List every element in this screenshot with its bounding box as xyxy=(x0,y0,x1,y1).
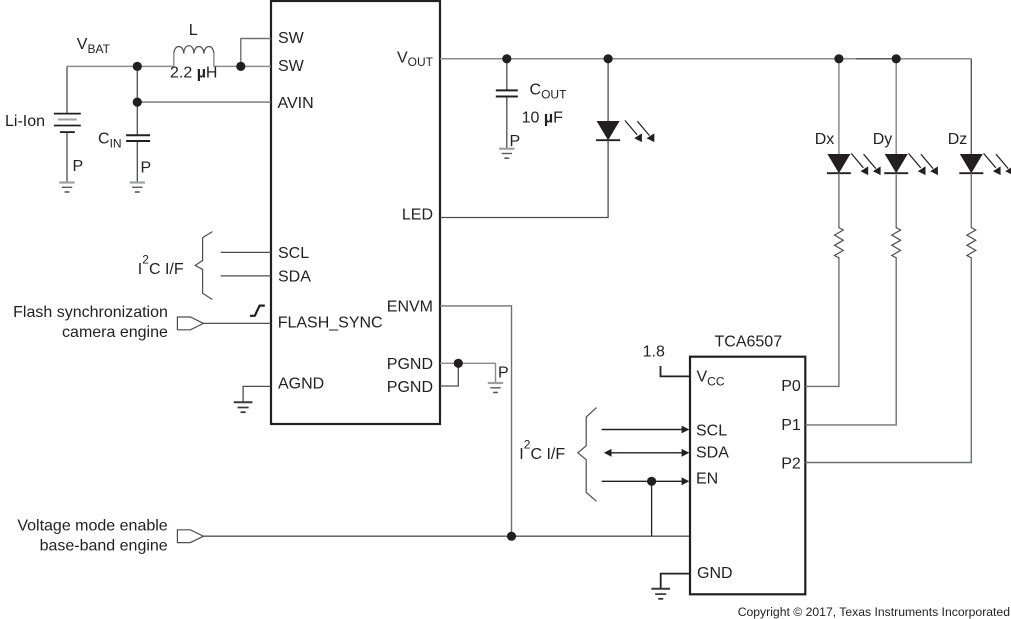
node dot Dx xyxy=(834,54,843,63)
svg-text:Flash synchronization: Flash synchronization xyxy=(13,304,168,321)
svg-text:10 µF: 10 µF xyxy=(522,109,563,126)
ground TCA xyxy=(651,589,670,599)
brace I2C main xyxy=(195,232,212,300)
main IC box xyxy=(271,1,440,424)
svg-text:COUT: COUT xyxy=(530,82,568,102)
capacitor COUT xyxy=(496,90,518,96)
wire PGND1 xyxy=(440,363,496,383)
svg-text:SW: SW xyxy=(278,30,305,47)
svg-text:P0: P0 xyxy=(781,378,801,395)
svg-text:AGND: AGND xyxy=(278,375,324,392)
svg-text:SCL: SCL xyxy=(696,423,727,440)
svg-text:TCA6507: TCA6507 xyxy=(715,333,783,350)
wire ENVM xyxy=(440,306,512,536)
wire P0 to Dx column xyxy=(805,257,839,386)
svg-text:SDA: SDA xyxy=(278,269,311,286)
svg-text:AVIN: AVIN xyxy=(278,95,314,112)
svg-text:SCL: SCL xyxy=(278,245,309,262)
wire battery bottom xyxy=(66,132,68,182)
wire P2 to Dz column xyxy=(805,257,971,462)
svg-text:EN: EN xyxy=(696,471,718,488)
rising edge symbol xyxy=(250,306,265,316)
wire SDA stub xyxy=(221,275,271,277)
ground CIN xyxy=(130,183,145,193)
svg-text:I2C I/F: I2C I/F xyxy=(138,252,184,278)
LED Dy xyxy=(884,154,908,173)
wire Dx anode xyxy=(838,59,840,154)
svg-text:P: P xyxy=(498,365,509,382)
svg-text:Dz: Dz xyxy=(948,131,968,148)
wire SCL stub xyxy=(221,251,271,253)
svg-text:VCC: VCC xyxy=(697,369,725,389)
wire AGND xyxy=(243,386,271,402)
node dot LED xyxy=(604,54,613,63)
svg-text:VBAT: VBAT xyxy=(77,36,111,56)
svg-text:2.2 µH: 2.2 µH xyxy=(170,65,217,82)
svg-text:SW: SW xyxy=(278,58,305,75)
svg-text:PGND: PGND xyxy=(387,379,433,396)
wire inductor right to SW junction xyxy=(214,65,272,67)
wire rail dark segment xyxy=(856,58,896,60)
svg-text:base-band engine: base-band engine xyxy=(40,538,168,555)
svg-text:ENVM: ENVM xyxy=(387,299,433,316)
svg-text:FLASH_SYNC: FLASH_SYNC xyxy=(278,314,383,331)
svg-text:GND: GND xyxy=(697,565,733,582)
ground COUT xyxy=(499,149,514,159)
svg-text:Li-Ion: Li-Ion xyxy=(5,113,45,130)
svg-text:Copyright © 2017, Texas Instru: Copyright © 2017, Texas Instruments Inco… xyxy=(738,605,1010,619)
node dot ENVM join xyxy=(507,532,516,541)
node dot COUT xyxy=(502,54,511,63)
wire battery top xyxy=(66,66,68,113)
wire VCC supply xyxy=(661,366,691,376)
wire EN vertical xyxy=(651,481,653,536)
svg-text:camera engine: camera engine xyxy=(62,324,168,341)
wire voltage mode enable xyxy=(203,535,690,537)
svg-text:Dx: Dx xyxy=(815,131,835,148)
svg-text:Dy: Dy xyxy=(873,131,893,148)
arrow SDA bidirectional xyxy=(604,449,690,457)
svg-text:LED: LED xyxy=(402,207,433,224)
ground AGND xyxy=(234,402,253,412)
wire CIN vertical bottom xyxy=(136,141,138,183)
capacitor CIN xyxy=(126,135,150,141)
wire Dz anode xyxy=(970,59,972,154)
wire LED anode xyxy=(607,59,609,121)
wire SW1 stub xyxy=(241,39,271,67)
wire LED cathode to LED pin xyxy=(440,140,608,217)
svg-text:1.8: 1.8 xyxy=(643,344,665,361)
svg-text:I2C I/F: I2C I/F xyxy=(519,437,565,463)
node dot Dy xyxy=(892,54,901,63)
node dot AVIN/CIN xyxy=(133,98,142,107)
wire CIN vertical top xyxy=(136,66,138,135)
svg-text:PGND: PGND xyxy=(387,356,433,373)
brace I2C TCA xyxy=(578,408,597,502)
svg-text:P: P xyxy=(73,158,84,175)
arrow EN into TCA xyxy=(602,477,690,485)
svg-text:P2: P2 xyxy=(781,455,801,472)
svg-text:SDA: SDA xyxy=(696,445,729,462)
node dot SW junction xyxy=(236,62,245,71)
ground battery xyxy=(59,183,74,193)
node dot EN xyxy=(647,477,656,486)
wire Dy cathode xyxy=(895,173,897,227)
node dot VBAT/CIN xyxy=(133,62,142,71)
LED D1 xyxy=(596,121,620,140)
svg-text:Voltage mode enable: Voltage mode enable xyxy=(17,518,167,535)
tag voltage mode input xyxy=(177,530,203,543)
wire TCA GND xyxy=(661,574,690,589)
wire Dx cathode xyxy=(838,173,840,227)
svg-text:P: P xyxy=(510,133,521,150)
LED Dz xyxy=(959,154,983,173)
wire V_BAT horizontal xyxy=(67,65,174,67)
wire FLASH_SYNC xyxy=(203,322,271,324)
wire COUT vertical xyxy=(506,59,508,149)
battery Li-Ion xyxy=(54,114,81,133)
resistor Dx xyxy=(835,227,844,258)
wire Dz cathode xyxy=(970,173,972,227)
wire VOUT rail xyxy=(440,58,971,60)
ground PGND P xyxy=(488,383,503,393)
svg-text:CIN: CIN xyxy=(98,131,122,151)
wire AVIN xyxy=(137,101,271,103)
wire P1 to Dy column xyxy=(805,257,896,425)
svg-text:P1: P1 xyxy=(781,417,801,434)
svg-text:VOUT: VOUT xyxy=(397,49,434,69)
wire Dy anode xyxy=(895,59,897,154)
wire PGND2 xyxy=(440,363,458,386)
arrow SCL into TCA xyxy=(602,426,690,434)
resistor Dz xyxy=(967,227,976,258)
svg-text:P: P xyxy=(141,160,152,177)
TCA6507 box xyxy=(690,357,805,595)
node dot PGND xyxy=(454,359,463,368)
svg-text:L: L xyxy=(189,22,198,39)
inductor L xyxy=(174,46,214,67)
LED Dx xyxy=(827,154,851,173)
resistor Dy xyxy=(892,227,901,258)
tag flash input xyxy=(177,317,203,330)
